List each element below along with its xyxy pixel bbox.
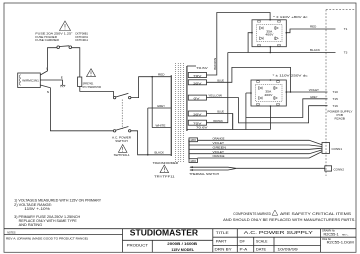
wire N from connector down to power switch pole 2: [40, 85, 113, 131]
svg-text:L: L: [46, 67, 48, 71]
title block: [4, 229, 356, 253]
svg-text:* ± 110V +80V dc: * ± 110V +80V dc: [273, 15, 308, 19]
transformer T1 primary winding: [170, 75, 172, 156]
svg-text:REV +: REV +: [342, 235, 349, 237]
svg-text:SWITCH: SWITCH: [115, 139, 128, 143]
tap box 70V: [188, 73, 206, 79]
warning triangle (switch): [118, 145, 127, 153]
thermal switch arrows: [189, 166, 193, 171]
svg-text:BLUE: BLUE: [217, 110, 224, 114]
svg-text:70.6V: 70.6V: [196, 66, 209, 70]
A.C. power switch SW1 pole 1: [113, 93, 130, 99]
wire BR1 left AC from common line: [248, 33, 252, 53]
svg-text:CONN2: CONN2: [334, 167, 345, 171]
wire VIOLET (lower) to CONN1: [189, 150, 322, 154]
svg-text:THERMAL SWITCH: THERMAL SWITCH: [189, 172, 219, 176]
wire 70.6V bottom tap / BR2 bottom common line: [187, 93, 271, 130]
svg-text:RED: RED: [158, 73, 165, 77]
svg-text:BLACK: BLACK: [310, 48, 321, 52]
svg-text:PART: PART: [216, 239, 227, 243]
svg-text:70.6V: 70.6V: [196, 126, 209, 130]
svg-text:STUDIOMASTER: STUDIOMASTER: [130, 228, 199, 237]
power supply PCB boundary (dashed): [326, 10, 356, 176]
switch mechanical link (dashed): [121, 100, 123, 130]
svg-text:TRANSFORMER: TRANSFORMER: [153, 161, 179, 165]
wire VIOLET to CONN1: [189, 145, 322, 147]
wire GREY to T15: [246, 99, 328, 118]
svg-text:GREY: GREY: [157, 104, 165, 108]
safety note: [223, 212, 356, 222]
svg-text:SCALE: SCALE: [256, 239, 268, 243]
svg-text:NOTES: NOTES: [7, 232, 16, 235]
svg-text:* ± 110V 250V dc: * ± 110V 250V dc: [273, 73, 309, 77]
tap box 18V (top): [189, 138, 198, 142]
svg-text:P-A: P-A: [240, 248, 248, 252]
svg-text:400V: 400V: [264, 93, 272, 97]
wire BROWN (70V top) to bridge BR1 top: [207, 13, 271, 76]
wire ORANGE (18V bottom) to CONN1: [198, 152, 323, 158]
svg-text:AND SHOULD ONLY BE REPLACED WI: AND SHOULD ONLY BE REPLACED WITH MANUFAC…: [223, 218, 356, 222]
wire switch pole1 to primary RED: [131, 77, 171, 98]
wire thermistor to switch pole 1: [80, 87, 114, 97]
svg-text:WHITE: WHITE: [156, 124, 166, 128]
switch label A.C. POWER SWITCH: [112, 136, 132, 143]
junction dot: [151, 76, 153, 78]
bridge rectifier BR1: [251, 19, 287, 48]
svg-text:BROWN: BROWN: [213, 58, 217, 70]
svg-text:115V +-10%: 115V +-10%: [24, 207, 49, 211]
svg-text:BLUE: BLUE: [217, 78, 224, 82]
svg-text:CONN1: CONN1: [332, 147, 343, 151]
BR1 common bottom wire (BLACK) to T3: [228, 47, 336, 53]
svg-text:T1: T1: [344, 27, 348, 31]
svg-text:1) VOLTAGES MEASURED WITH 115V: 1) VOLTAGES MEASURED WITH 115V ON PRIMAR…: [14, 198, 102, 202]
svg-text:10/09/99: 10/09/99: [277, 248, 297, 252]
title block text: [6, 228, 354, 252]
wire ORANGE (18V top) to CONN1: [198, 140, 323, 144]
svg-text:T15: T15: [333, 97, 339, 101]
svg-text:BROWN: BROWN: [213, 119, 222, 123]
primary wire GREY: [148, 107, 172, 109]
svg-text:AND RATING: AND RATING: [19, 223, 43, 227]
thermistor label SPRE7451 NTC THERMISTOR: [83, 82, 102, 89]
inline warning triangle: [272, 210, 278, 215]
junction dot: [290, 91, 292, 93]
svg-text:DRN BY: DRN BY: [215, 248, 233, 252]
svg-text:R2A2B: R2A2B: [335, 117, 346, 121]
svg-text:SWTP10L1: SWTP10L1: [114, 153, 130, 157]
svg-text:DATE: DATE: [256, 248, 267, 252]
wire RED from BR1 right to T1: [286, 29, 335, 33]
svg-text:400V: 400V: [265, 33, 273, 37]
junction dot: [270, 52, 272, 54]
IEC mains connector PL1: [18, 73, 41, 88]
svg-text:2000B / 1600B: 2000B / 1600B: [167, 242, 197, 246]
junction dot: [147, 154, 149, 156]
NTC thermistor TH1: [78, 77, 82, 87]
transformer main secondary winding: [186, 66, 188, 131]
svg-text:T3: T3: [344, 51, 348, 55]
svg-text:BLACK: BLACK: [155, 151, 165, 155]
svg-text:PRODUCT: PRODUCT: [127, 243, 149, 247]
thermal switch wires: [190, 167, 325, 170]
wire L from connector to fuse: [40, 48, 57, 75]
tap box 30V: [188, 80, 206, 86]
fuse note text: [35, 32, 88, 43]
svg-text:ARE SAFETY CRITICAL ITEMS: ARE SAFETY CRITICAL ITEMS: [280, 212, 352, 216]
tap box 30V (lower): [188, 111, 206, 117]
jumper RED to WHITE: [151, 77, 153, 128]
svg-text:NTC THERMISTOR: NTC THERMISTOR: [83, 85, 102, 89]
tap box 70V (lower): [188, 120, 206, 126]
svg-text:30V: 30V: [193, 113, 203, 117]
connector CONN2: [325, 166, 332, 171]
wire GREEN to CONN1: [189, 148, 322, 149]
wire BLUE (30V lower) to BR2 bottom line: [207, 114, 233, 130]
svg-text:VIOLET: VIOLET: [309, 88, 319, 92]
svg-text:2) VOLTAGE RANGE:: 2) VOLTAGE RANGE:: [14, 203, 52, 207]
svg-text:18V: 18V: [190, 138, 196, 142]
svg-text:30V: 30V: [193, 81, 203, 85]
transformer core (dashed): [176, 63, 184, 162]
warning triangle (thermistor): [87, 69, 96, 77]
warning triangle (transformer): [160, 165, 169, 173]
A.C. power switch SW1 pole 2: [113, 127, 130, 133]
svg-text:CKTF4011: CKTF4011: [75, 38, 88, 42]
svg-text:FUSE CARRIER: FUSE CARRIER: [35, 38, 59, 42]
svg-text:A.C. POWER SUPPLY: A.C. POWER SUPPLY: [244, 230, 313, 235]
transformer low-voltage secondary winding: [188, 140, 190, 159]
svg-text:T16: T16: [333, 104, 339, 108]
svg-text:REV A: (DRAWN) (MADE GOOD TO P: REV A: (DRAWN) (MADE GOOD TO PRODUCT RAN…: [6, 236, 88, 240]
svg-text:E: E: [61, 76, 63, 80]
svg-text:YELLOW: YELLOW: [208, 94, 222, 98]
bridge BR1 value 35A 400V: [265, 29, 273, 36]
wire switch pole2 to primary BLACK: [131, 131, 171, 155]
warning triangle (fuse): [60, 21, 71, 31]
tap box 18V (bottom): [189, 159, 198, 163]
bridge BR2 value 35A 400V: [264, 90, 272, 97]
svg-text:ORANGE: ORANGE: [213, 154, 225, 158]
connector CONN1: [322, 143, 330, 154]
fuse FS1: [57, 46, 72, 49]
chassis ground: [60, 85, 65, 87]
svg-text:COMPONENTS MARKED: COMPONENTS MARKED: [233, 212, 271, 216]
notes text: [14, 198, 102, 227]
label POWER SUPPLY PCB R2A2B: [328, 109, 353, 120]
primary wire WHITE: [152, 127, 171, 129]
svg-text:RED: RED: [310, 25, 317, 29]
wire BROWN (70V lower) to bridge BR1 bottom line: [207, 53, 228, 123]
svg-text:WIRMC3N1: WIRMC3N1: [22, 78, 39, 82]
svg-text:TITLE: TITLE: [216, 231, 229, 235]
svg-text:GREY: GREY: [310, 95, 318, 99]
svg-text:R2C55-1: R2C55-1: [324, 233, 339, 237]
wire BLUE (30V) to bridge BR2: [207, 67, 291, 92]
svg-text:DF: DF: [240, 239, 246, 243]
svg-text:N: N: [47, 90, 49, 94]
bridge rectifier BR2: [250, 79, 287, 107]
svg-text:T10: T10: [333, 90, 339, 94]
wire fuse to thermistor: [72, 48, 80, 77]
tap box 0V: [188, 95, 206, 101]
wire YELLOW (0V) to T16: [207, 98, 328, 123]
svg-text:GREEN: GREEN: [213, 145, 227, 149]
tap label 70.6V (top): [187, 65, 196, 67]
wire VIOLET from BR2 right to T10: [286, 91, 327, 93]
svg-text:R2C55-1.DGM: R2C55-1.DGM: [327, 241, 354, 245]
svg-text:115V MODEL: 115V MODEL: [171, 248, 195, 252]
jumper GREY to BLACK: [147, 108, 149, 155]
wire E from connector to chassis ground: [40, 80, 62, 85]
svg-text:ORANGE: ORANGE: [213, 136, 225, 140]
svg-text:TRYTFF11: TRYTFF11: [154, 175, 175, 179]
svg-text:18V: 18V: [190, 159, 196, 163]
svg-text:70V: 70V: [193, 74, 203, 78]
